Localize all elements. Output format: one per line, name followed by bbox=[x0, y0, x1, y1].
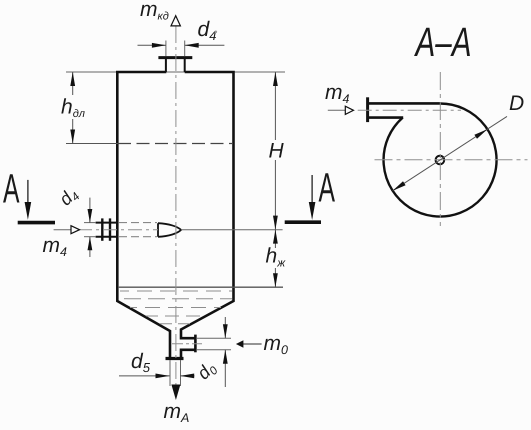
node top nozzle flange bbox=[158, 56, 192, 59]
node volute circle bbox=[384, 103, 497, 216]
node h_dl arrows bbox=[70, 72, 75, 86]
wire liquid dashes row 2 bbox=[120, 298, 232, 300]
node volute inlet pipe top edge bbox=[368, 102, 441, 105]
node flow arrow m4 left (hollow) bbox=[54, 229, 71, 231]
wire vessel top extension line bbox=[66, 71, 285, 73]
node section bar A right bbox=[285, 220, 321, 224]
node d4 top arrows bbox=[152, 43, 166, 48]
wire d4 top extension lines bbox=[165, 41, 167, 57]
wire d4 top dimension line bbox=[138, 44, 166, 46]
wire d4 side extension ticks bbox=[84, 222, 96, 224]
svg-text:D: D bbox=[509, 92, 524, 115]
node flow arrow m4 right (hollow) bbox=[328, 109, 346, 111]
svg-text:A: A bbox=[319, 165, 336, 211]
node flow arrow m_kd (hollow, up) bbox=[171, 16, 180, 26]
wire diameter D dimension line bbox=[393, 116, 507, 190]
wire d0 extension lines bbox=[197, 337, 231, 339]
node h_zh arrows bbox=[273, 230, 278, 244]
node d4 side arrows bbox=[88, 209, 93, 223]
node volute inlet pipe bottom edge bbox=[368, 116, 404, 119]
node d0 arrows bbox=[223, 324, 228, 338]
wire liquid dashes row 3 bbox=[130, 307, 221, 309]
node section arrow A right bbox=[311, 175, 313, 204]
node H arrows bbox=[273, 72, 278, 86]
node d5 arrows bbox=[156, 374, 170, 379]
node flow arrow mA bbox=[171, 385, 180, 401]
wire side nozzle centerline bbox=[78, 229, 158, 231]
wire liquid dashes row 5 bbox=[160, 323, 190, 325]
wire nozzle axis extension to dimensions bbox=[181, 229, 283, 231]
svg-text:H: H bbox=[269, 140, 285, 163]
wire side nozzle hidden edges inside vessel bbox=[119, 222, 157, 224]
node bullet nose of inner nozzle bbox=[158, 223, 181, 237]
wire liquid dashes row 1 bbox=[120, 290, 232, 292]
node flow arrow m0 bbox=[242, 343, 262, 345]
node vessel shell right side bbox=[181, 72, 234, 359]
wire d5 dimension line bbox=[119, 375, 170, 377]
node side nozzle flange lines bbox=[101, 218, 103, 240]
node bottom outlet flange bbox=[166, 357, 184, 360]
wire upper dashed level line bbox=[66, 143, 118, 145]
wire d4 side dimension line bbox=[89, 198, 91, 223]
wire volute vertical centerline bbox=[439, 72, 441, 226]
node section bar A left bbox=[18, 221, 55, 225]
node volute inlet flange bbox=[366, 97, 369, 122]
wire h_dl dimension line bbox=[72, 72, 74, 95]
wire d0 dimension line bbox=[224, 317, 226, 338]
svg-text:A–A: A–A bbox=[413, 19, 471, 65]
node side nozzle pipe bbox=[96, 222, 118, 224]
wire liquid level line bbox=[118, 286, 283, 288]
wire d5 extension lines below flange bbox=[169, 360, 171, 386]
wire volute pipe centerline bbox=[358, 109, 461, 111]
node vessel shell left side bbox=[117, 72, 170, 359]
wire vessel vertical centerline bbox=[175, 26, 177, 385]
wire branch centerline bbox=[172, 343, 202, 345]
wire H dimension line bbox=[274, 72, 276, 140]
node top nozzle pipe bbox=[165, 58, 167, 72]
node section arrow A left bbox=[27, 180, 29, 205]
wire volute horizontal centerline bbox=[375, 159, 528, 161]
node D arrows bbox=[393, 181, 406, 191]
wire liquid dashes row 4 bbox=[146, 315, 205, 317]
node volute center small circle bbox=[436, 156, 445, 165]
node bottom outlet branch flange bbox=[194, 335, 197, 353]
svg-text:A: A bbox=[3, 166, 20, 212]
wire h_zh dimension line bbox=[274, 230, 276, 248]
